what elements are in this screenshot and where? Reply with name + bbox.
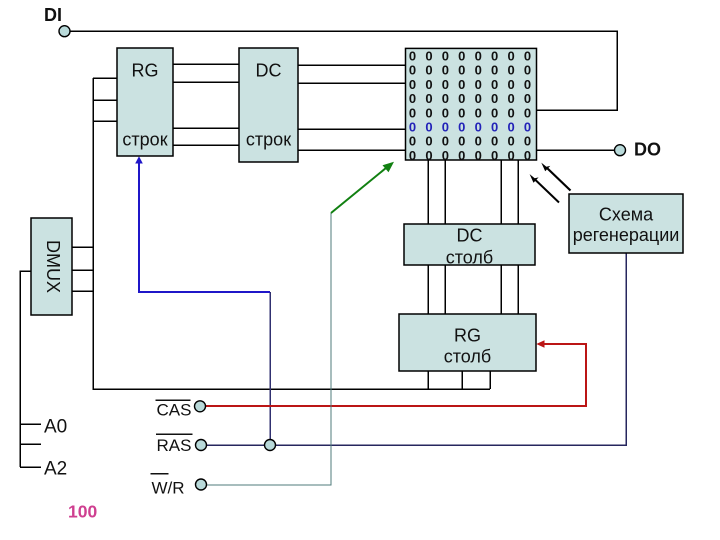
svg-text:00000000: 00000000 <box>409 105 540 120</box>
svg-text:DC: DC <box>256 60 282 80</box>
svg-text:CAS: CAS <box>157 400 192 419</box>
svg-text:RG: RG <box>454 326 481 346</box>
svg-text:DO: DO <box>634 139 661 159</box>
svg-text:столб: столб <box>444 347 491 367</box>
svg-text:DC: DC <box>457 226 483 246</box>
svg-text:A2: A2 <box>44 459 67 480</box>
svg-text:A0: A0 <box>44 417 67 438</box>
svg-text:00000000: 00000000 <box>409 91 540 106</box>
svg-text:DI: DI <box>44 5 62 25</box>
svg-text:строк: строк <box>122 130 167 150</box>
svg-text:00000000: 00000000 <box>409 77 540 92</box>
svg-text:регенерации: регенерации <box>573 225 680 245</box>
svg-text:RG: RG <box>132 60 159 80</box>
svg-text:00000000: 00000000 <box>409 120 540 135</box>
svg-text:столб: столб <box>446 247 493 267</box>
svg-text:DMUX: DMUX <box>43 240 63 293</box>
svg-text:00000000: 00000000 <box>409 134 540 149</box>
svg-text:W/R: W/R <box>152 479 185 498</box>
svg-text:Схема: Схема <box>599 205 654 225</box>
svg-text:RAS: RAS <box>157 436 192 455</box>
svg-text:00000000: 00000000 <box>409 148 540 163</box>
svg-text:00000000: 00000000 <box>409 63 540 78</box>
svg-text:100: 100 <box>68 501 97 521</box>
svg-text:00000000: 00000000 <box>409 49 540 64</box>
svg-text:строк: строк <box>246 130 291 150</box>
